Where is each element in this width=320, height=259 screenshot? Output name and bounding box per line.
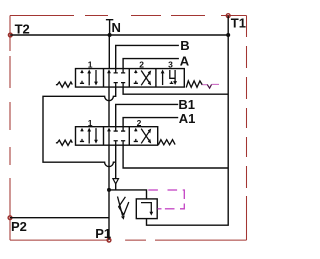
wire T1 vertical down to relief return bbox=[147, 16, 229, 226]
valve V1 cell2 center up arrow bbox=[107, 69, 111, 87]
wire hop line 1, left U vertical, hop line 2 bbox=[43, 87, 116, 167]
svg-text:T2: T2 bbox=[15, 22, 30, 37]
valve V1 cell3 blocked port mark bbox=[134, 70, 138, 84]
valve V1 cell2 blocked stubs bbox=[114, 69, 126, 88]
svg-text:1: 1 bbox=[88, 118, 93, 128]
enclosure dashed border right bbox=[246, 16, 248, 241]
svg-text:2: 2 bbox=[139, 60, 144, 70]
wire A line bbox=[123, 59, 179, 69]
svg-text:P2: P2 bbox=[11, 219, 27, 234]
svg-text:B1: B1 bbox=[178, 97, 195, 112]
enclosure dashed border bottom bbox=[10, 239, 247, 241]
wire valve2 right return to T1 bbox=[123, 145, 228, 168]
svg-text:B: B bbox=[180, 38, 189, 53]
wire P2 line bbox=[10, 217, 109, 219]
wire valve2 B-port down to P junction bbox=[115, 145, 117, 190]
valve V1 cell4 U-turn arrow bbox=[170, 70, 177, 85]
port P2 ring bbox=[8, 216, 12, 220]
svg-text:N: N bbox=[112, 20, 121, 35]
port T2 ring bbox=[8, 33, 12, 37]
node junction N bbox=[108, 33, 112, 37]
valve V1 cell4 up arrow bbox=[161, 70, 165, 86]
valve V2 cell2 center up arrow bbox=[107, 127, 111, 145]
valve V1 left spring bbox=[56, 82, 72, 87]
wire B line bbox=[116, 45, 179, 68]
valve V1 right spring bbox=[186, 81, 202, 88]
relief valve adjustment arrow bbox=[118, 197, 125, 220]
detent magenta squiggle bbox=[202, 84, 207, 86]
wire carry-over valve1 to valve2 bbox=[108, 87, 110, 127]
relief valve internal arrow bbox=[141, 203, 153, 216]
valve V2 cell1 down arrow bbox=[94, 128, 98, 144]
svg-text:A: A bbox=[180, 53, 190, 68]
enclosure dashed border top bbox=[10, 15, 247, 17]
relief valve spring bbox=[119, 197, 129, 215]
svg-text:1: 1 bbox=[88, 60, 93, 70]
valve V1 cell1 down arrow bbox=[94, 70, 98, 86]
wire B1 line bbox=[116, 104, 179, 126]
valve V2 cell3 crossed arrows bbox=[141, 129, 151, 144]
svg-text:3: 3 bbox=[168, 60, 173, 70]
node junction T1 bbox=[226, 33, 230, 37]
check port triangle bbox=[113, 179, 119, 184]
wire valve1 right return to T1 bbox=[123, 87, 228, 94]
valve V2 cell2 blocked stubs bbox=[114, 127, 126, 146]
valve V2 left spring bbox=[56, 140, 72, 145]
node junction P bbox=[107, 188, 111, 192]
wire center P1 vertical bbox=[108, 145, 110, 240]
valve V1 cell3 crossed arrows bbox=[141, 70, 151, 85]
svg-text:2: 2 bbox=[137, 118, 142, 128]
valve V2 cell1 blocked port mark bbox=[80, 128, 84, 142]
valve V2 body bbox=[76, 127, 158, 146]
valve V1 body bbox=[76, 69, 185, 88]
wire top T2-T1 line bbox=[10, 34, 228, 36]
svg-text:T1: T1 bbox=[231, 16, 246, 31]
enclosure dashed border left bbox=[9, 16, 11, 241]
port T1 ring bbox=[226, 14, 230, 18]
svg-text:P1: P1 bbox=[95, 226, 111, 241]
relief valve RV body bbox=[136, 199, 157, 219]
wire A1 line bbox=[123, 118, 178, 127]
svg-text:A1: A1 bbox=[179, 111, 196, 126]
wire P junction to relief valve bbox=[109, 190, 147, 199]
valve V1 cell1 blocked port mark bbox=[80, 70, 84, 84]
pilot magenta dashed line bbox=[148, 190, 184, 209]
valve V2 right spring bbox=[158, 140, 175, 145]
port P1 ring bbox=[107, 238, 111, 242]
wire N vertical with cap bbox=[106, 20, 113, 69]
valve V1 cell1 up arrow bbox=[87, 70, 91, 86]
valve V2 cell3 blocked port mark bbox=[134, 128, 138, 142]
valve V2 cell1 up arrow bbox=[87, 128, 91, 144]
